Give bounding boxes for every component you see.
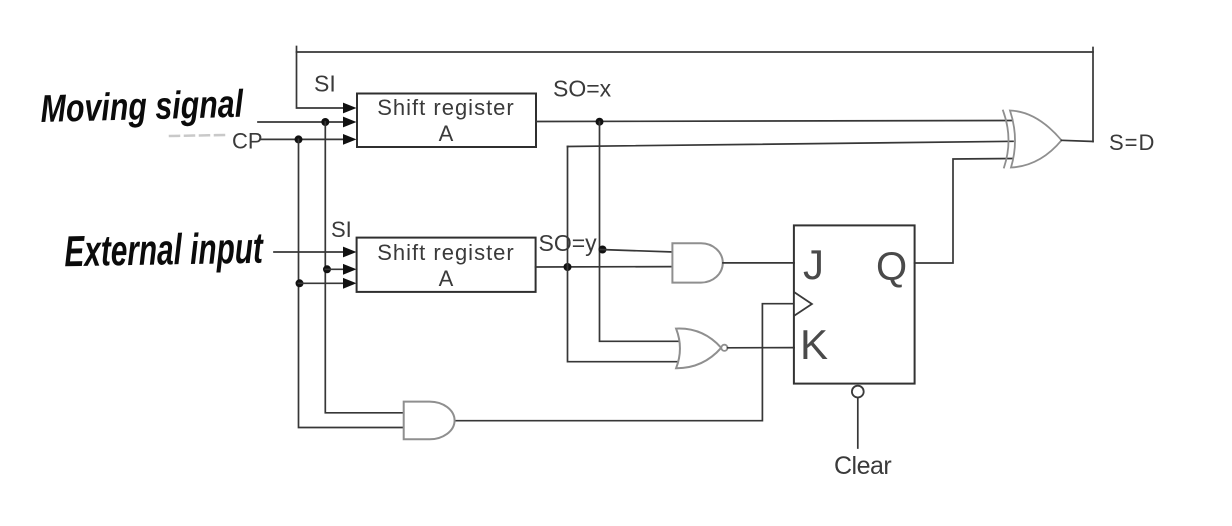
arrowhead moving-signal into register A1 — [343, 117, 357, 128]
junction dot moving-signal at register A2 row — [323, 265, 331, 273]
svg-text:A: A — [439, 266, 454, 291]
wire: clock from AND U1 output up to flip-flop — [455, 304, 793, 421]
wire: branch into register A2 third input — [299, 282, 348, 284]
wire: CP vertical down to register A2 and AND gate — [299, 139, 405, 427]
junction dot on CP line — [295, 135, 303, 143]
wire: top feedback line S=D to SI of register A1 — [297, 52, 1094, 142]
wire: branch into register A2 second input — [325, 268, 347, 270]
NOR gate U3 (feeds K) — [676, 329, 721, 369]
svg-text:SO=x: SO=x — [553, 76, 612, 102]
wire: NOR output to K — [728, 347, 794, 349]
svg-text:Shift register: Shift register — [377, 240, 515, 265]
junction dot on x vertical at AND branch — [599, 246, 607, 254]
svg-text:Q: Q — [876, 245, 907, 289]
arrowhead SI into register A1 — [343, 103, 357, 114]
wire: y branch down to NOR bottom input — [568, 267, 683, 362]
wire: SO=x from register A1 to XOR input 1 — [536, 121, 1013, 122]
svg-text:Clear: Clear — [834, 452, 891, 480]
svg-text:S=D: S=D — [1109, 130, 1155, 155]
wire: Q output up to XOR input 3 — [915, 159, 1013, 264]
wire: XOR output to S=D corner — [1062, 140, 1094, 141]
arrowhead CP into register A1 — [343, 134, 357, 145]
AND gate U2 (feeds J) — [672, 243, 722, 282]
AND gate U1 (bottom left, clock gating) — [404, 402, 455, 440]
handwritten label: Moving signal — [40, 82, 244, 132]
svg-text:SI: SI — [314, 71, 336, 97]
svg-text:Shift register: Shift register — [377, 95, 515, 120]
wire: External input to SI of register A2 — [274, 251, 347, 253]
junction dot CP at register A2 row — [296, 279, 304, 287]
arrowhead second input register A2 — [343, 264, 357, 275]
wire: y branch up to XOR input 2 — [567, 147, 570, 268]
wire: CP input — [260, 138, 347, 140]
handwritten label: External input — [64, 224, 263, 278]
faint erased smudge left of CP — [170, 135, 224, 136]
wire: AND U2 output to J — [723, 262, 794, 264]
tick at left corner of top line — [296, 47, 298, 53]
clock triangle on flip-flop — [795, 293, 812, 316]
wire: Moving signal input — [258, 121, 347, 123]
svg-text:CP: CP — [232, 129, 263, 154]
svg-text:J: J — [803, 241, 824, 288]
junction dot on SO=y — [564, 263, 572, 271]
svg-text:K: K — [800, 321, 828, 368]
arrowhead third input register A2 — [343, 278, 357, 289]
wire: clear input — [857, 398, 859, 449]
NOR output bubble — [721, 345, 727, 351]
wire: SO=y from register A2 to AND gate bottom input — [536, 266, 674, 268]
svg-text:A: A — [439, 121, 454, 146]
junction dot on SO=x — [596, 118, 604, 126]
JK flip-flop box U4 — [794, 225, 915, 383]
svg-text:SI: SI — [331, 217, 352, 242]
register A1 box — [357, 94, 536, 148]
wire: moving-signal vertical down to register A2 and AND gate — [325, 122, 404, 413]
clear bubble on flip-flop — [852, 386, 864, 398]
register A2 box — [357, 238, 536, 292]
wire: x branch down to AND and NOR (vertical at x=600) — [600, 122, 683, 342]
arrowhead external input (SI) into register A2 — [343, 247, 357, 258]
XOR gate U5 (sum) — [1003, 111, 1009, 168]
junction dot on moving-signal line — [321, 118, 329, 126]
wire: x branch to AND gate top input — [601, 250, 674, 253]
tick at right corner of top line — [1092, 48, 1094, 53]
